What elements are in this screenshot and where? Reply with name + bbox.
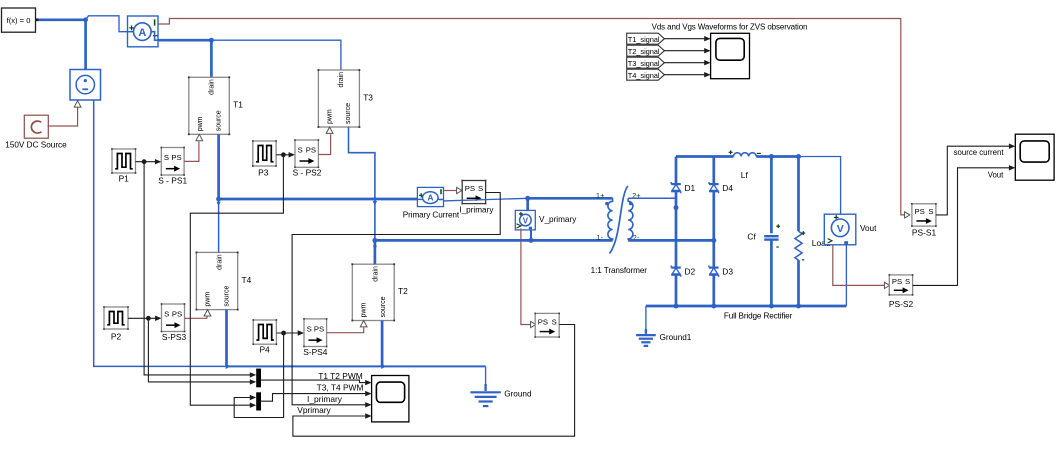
svg-text:T2: T2 [398,286,408,296]
junction node on bridge leg 2 [711,238,716,243]
wire: junction down into V_primary meter [526,198,529,211]
svg-text:PS: PS [892,277,902,286]
svg-text:T3_signal: T3_signal [628,59,660,68]
wire: I_primary signal routed to scope input 3 [292,193,500,405]
wire: P3 signal down/left/down to mux2 input 2 [190,155,283,405]
svg-text:Ground1: Ground1 [660,333,692,342]
capacitor Cf [770,157,773,234]
svg-text:V: V [837,223,844,235]
scope (Vds and Vgs waveforms) [711,33,750,78]
svg-text:D2: D2 [685,267,696,277]
svg-text:V: V [523,216,529,225]
svg-text:D3: D3 [722,267,733,277]
svg-text:PS-S1: PS-S1 [912,228,937,238]
converter S-PS2 [295,140,318,167]
svg-text:Cf: Cf [747,232,756,242]
svg-text:PS: PS [172,310,182,319]
svg-text:T1: T1 [233,100,243,110]
svg-text:V_primary: V_primary [539,215,577,224]
junction node on drain feed [209,38,214,43]
svg-text:PS: PS [465,184,475,193]
svg-text:pwm: pwm [205,292,212,307]
mux Mux2 [256,392,261,410]
svg-text:S: S [164,310,169,319]
svg-text:D1: D1 [685,183,696,193]
junction mark T4 source on rail [226,364,231,369]
wire: T1 source down to primary rail (thick blue) [217,134,220,199]
converter PS-S2 [889,275,912,295]
junction mark on leg B at top primary rail [373,197,377,201]
ground Ground [470,391,500,393]
wire: P1 signal down to mux1 input 1 [144,162,251,375]
wire: Vout measurement to PS-S2 (brown) [833,245,885,286]
svg-text:T4_signal: T4_signal [628,71,660,80]
svg-text:drain: drain [208,79,215,95]
svg-text:T3: T3 [363,92,373,102]
wire: C block to DC source ps port (brown) [48,108,78,127]
wire: primary top rail to transformer 1+ (thick blue) [528,197,613,200]
voltmeter Vout [824,214,856,245]
svg-text:T3, T4 PWM: T3, T4 PWM [317,382,364,392]
svg-text:drain: drain [373,266,380,282]
svg-text:PS-S2: PS-S2 [889,299,914,309]
DC voltage source block (150V) [70,70,101,101]
converter S-PS4 [304,319,327,347]
svg-text:S: S [552,317,557,326]
wire: ground rail down to Ground symbol [485,366,487,387]
wire: T3 source down and over toward T2 (blue) [349,127,375,240]
svg-text:pwm: pwm [361,303,368,318]
wire: node to ammeter A1 plus input [86,16,128,32]
subsystem T3 [318,70,359,127]
wire: ground rail middle segment (medium blue) [227,365,486,367]
wire: S-PS3 to T4 pwm (brown) [185,316,207,318]
svg-text:I_primary: I_primary [459,206,494,215]
converter S-PS1 [161,148,184,176]
svg-text:T1 T2 PWM: T1 T2 PWM [318,371,363,381]
transformer 1:1 primary winding [608,198,613,240]
junction node at Cf top [769,154,774,159]
pwm port triangle of T2 [360,321,367,327]
svg-text:S-PS4: S-PS4 [303,347,328,357]
wire: mux2 output to scope input 2 (T3, T4 PWM) [261,394,366,402]
transformer 1:1 secondary winding [628,198,633,240]
junction node V_primary plus [525,196,530,201]
wire: transformer 2- to bridge leg 2 (thick blue) [628,239,714,242]
diode D3 [709,267,719,269]
svg-text:f(x) = 0: f(x) = 0 [7,16,31,25]
svg-text:source current: source current [954,148,1005,157]
svg-text:A: A [138,27,146,39]
wire: bottom primary rail transformer 1- to leg B (thick blue) [375,239,613,242]
svg-text:PS: PS [538,317,548,326]
wire: primary rail down to T4 drain (thin blue) [218,199,220,252]
wire: leg A midpoint to Primary Current ammeter (thick blue) [219,198,418,201]
svg-text:S: S [307,325,312,334]
wire: bottom rail to Ground1 [645,306,647,334]
wire: output node to Vout meter (thin blue) [799,157,841,215]
svg-text:S: S [905,277,910,286]
svg-text:I_primary: I_primary [307,394,343,404]
svg-text:150V DC Source: 150V DC Source [5,140,67,149]
resistor Load [797,157,800,232]
svg-text:S-PS3: S-PS3 [162,332,187,342]
transformer phase dot primary [605,202,608,205]
wire: node to T3 drain (thin blue) [211,40,341,70]
svg-text:source: source [215,110,222,131]
wire: T1_signal to scope [664,38,704,40]
wire: P4 signal down around to mux2 input 1 [234,333,283,418]
ps input triangle of PS-S1 [905,212,910,218]
diode D4 [709,183,719,185]
svg-text:drain: drain [216,254,223,270]
PS constant block C [24,115,48,138]
svg-text:Vout: Vout [860,224,877,233]
svg-text:D4: D4 [722,183,733,193]
bridge top rail wire [676,155,734,158]
svg-text:pwm: pwm [327,109,334,124]
junction mark T2 source on rail [381,364,386,369]
svg-text:P4: P4 [259,344,270,354]
ps input triangle of Vprimary converter [531,321,536,327]
svg-text:P3: P3 [258,167,269,177]
pulse generator P3 [253,141,276,166]
svg-text:P1: P1 [119,174,130,184]
wire: transformer 2+ to bridge leg 1 (blue) [628,197,676,199]
bridge leg 2 vertical wire [712,157,715,307]
wire: mux1 output to scope input 1 (T1 T2 PWM) [261,380,366,383]
svg-text:PS: PS [314,325,324,334]
bridge leg 1 vertical wire [675,157,678,307]
svg-text:pwm: pwm [197,116,204,131]
svg-text:Ground: Ground [504,390,532,399]
from tag T4_signal [627,69,665,80]
svg-text:T2_signal: T2_signal [628,47,660,56]
svg-text:P2: P2 [111,331,122,341]
svg-text:Vout: Vout [988,170,1004,179]
wire: P3 to S-PS2 with junction [276,154,289,156]
converter PS-S1 [912,204,936,226]
ammeter Primary Current [417,187,443,206]
from tag T1_signal [627,33,665,44]
mux Mux1 [256,369,261,388]
pwm port triangle of T1 [196,134,203,140]
transformer phase dot secondary [629,202,632,205]
voltmeter V_primary [515,210,535,230]
wire: S-PS1 to T1 pwm (brown) [184,142,199,162]
svg-text:T1_signal: T1_signal [628,35,660,44]
svg-text:1:1 Transformer: 1:1 Transformer [591,266,648,275]
wire: bottom rail down to T2 drain (thick blue) [374,240,377,264]
svg-text:S: S [928,207,933,216]
wire: V_primary measurement to PS S converter (brown) [521,229,531,325]
transformer core separator curve [610,186,628,254]
subsystem T4 [196,252,237,309]
svg-text:Vds and Vgs Waveforms for ZVS: Vds and Vgs Waveforms for ZVS observatio… [652,22,808,31]
junction node on bridge leg 1 [674,205,679,210]
svg-text:PS: PS [306,146,316,155]
svg-text:Primary Current: Primary Current [403,210,460,219]
svg-text:1-: 1- [596,233,603,242]
wire: PS-S2 output to scope (Vout signal) [913,168,1010,286]
wire: P2 signal down to mux1 input 2 [148,318,250,382]
junction node at f(x) wire split [83,17,88,22]
pwm port triangle of T3 [326,127,333,133]
from tag T2_signal [627,45,665,56]
svg-text:S - PS2: S - PS2 [293,167,322,177]
converter PS S (I_primary) [462,181,485,204]
wire: Lf to output node (thick blue) [756,155,798,158]
svg-text:S: S [478,184,483,193]
wire: T3_signal to scope [664,62,704,64]
junction node on leg B at bottom primary rail [372,238,377,243]
svg-text:source: source [345,103,352,124]
wire: S-PS2 to T3 pwm (brown) [318,134,330,154]
pulse generator P4 [253,320,276,344]
svg-text:S: S [298,146,303,155]
ps input triangle of PS-S2 [884,282,889,288]
svg-text:T4: T4 [242,275,252,285]
wire: P4 to S-PS4 with junction [276,332,298,334]
wire: A1 output to T1 drain (thick blue) [158,39,211,42]
wire: T2_signal to scope [664,50,704,52]
scope (source current / Vout) [1015,134,1054,180]
junction nodes on bottom rail [674,304,679,309]
svg-text:source: source [380,296,387,317]
svg-text:S: S [164,153,169,162]
svg-text:Vprimary: Vprimary [297,405,331,415]
pulse generator P2 [104,307,128,329]
svg-text:S - PS1: S - PS1 [158,175,187,185]
wire: A1 current signal I to PS-S1 (brown, across top) [158,19,910,215]
wire: S-PS4 to T2 pwm (brown) [327,328,364,333]
bridge bottom rail wire [646,305,847,308]
wire: T4 source to ground rail (thick blue) [225,310,228,367]
wire: V_primary minus down to bottom rail [530,230,532,241]
svg-text:A: A [427,193,433,203]
svg-text:drain: drain [338,72,345,88]
svg-text:Lf: Lf [741,170,749,180]
wire: ammeter output to V_primary junction (blue) [444,198,528,201]
junction node at Load top [796,154,801,159]
pwm port triangle of T4 [204,310,211,316]
junction node V_primary minus on bottom rail [529,238,534,243]
solver configuration block f(x) = 0 [2,8,36,32]
diode D2 [671,267,681,269]
wire: T2 source to ground rail (thick blue) [381,321,384,367]
wire: DC source minus down and across to Ground (blue) [94,100,227,366]
wire: T4_signal to scope [664,74,704,76]
wire: P2 to S-PS3 with junction [128,317,156,319]
scope (PWM / primary waveforms) [372,376,409,422]
from tag T3_signal [627,57,665,68]
wire: P1 to S-PS1 with junction [136,161,156,163]
ammeter A1 block [128,16,159,47]
wire: PS-S1 output to scope (source current signal) [936,146,1010,215]
converter PS S (Vprimary) [535,313,559,337]
wire: Vprimary signal routed to scope input 4 [293,325,575,437]
ground Ground1 [636,334,656,336]
ps input triangle of I_primary converter [457,187,462,193]
converter S-PS3 [162,304,185,332]
svg-text:Full Bridge Rectifier: Full Bridge Rectifier [724,311,793,320]
diode D1 [671,183,681,185]
junction node of phase leg A to primary rail [216,197,221,202]
wire: f(x)=0 output to DC source top (thick blue) [39,18,86,21]
svg-text:source: source [223,285,230,306]
subsystem T2 [352,264,394,320]
ps input port triangle of DC source [74,101,81,107]
pulse generator P1 [112,149,136,173]
inductor Lf [734,153,757,157]
wire: inside Primary Current ammeter [417,198,423,200]
wire: inside ammeter A1 to output [128,31,134,33]
svg-text:1+: 1+ [596,191,605,200]
svg-text:PS: PS [915,207,925,216]
wire: Primary Current I output to PS S converter (brown) [443,190,456,192]
subsystem T1 [189,77,230,134]
svg-text:PS: PS [171,153,181,162]
wire: Vout meter minus down to bottom rail [845,245,847,306]
